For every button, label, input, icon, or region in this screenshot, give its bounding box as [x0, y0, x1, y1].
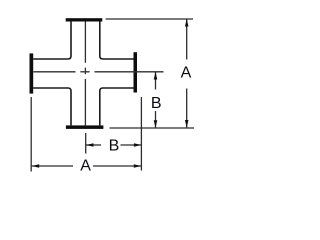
- cross fitting body outline top-right quadrant: [100, 22, 134, 60]
- cross fitting body outline bottom-left quadrant: [33, 88, 71, 125]
- cross fitting body outline bottom-right quadrant: [100, 88, 134, 125]
- right ferrule flange: [134, 52, 138, 92]
- arrow left B bottom: [86, 143, 94, 147]
- arrow left A bottom: [32, 164, 40, 168]
- extension line bottom left vertical: [30, 97, 32, 172]
- arrow up B right: [154, 72, 158, 80]
- dimension line A bottom: [32, 165, 73, 167]
- extension line below bottom flange (centerline continuation): [85, 133, 87, 154]
- cross fitting body outline top-left quadrant: [33, 22, 71, 60]
- svg-text:B: B: [109, 137, 120, 154]
- vertical centerline: [84, 22, 86, 126]
- extension line top right: [106, 18, 193, 20]
- dimension line B right: [155, 72, 157, 90]
- arrow right A bottom: [134, 164, 142, 168]
- bottom ferrule flange: [66, 125, 104, 128]
- dimension line A right: [186, 19, 188, 60]
- dimension line B bottom: [86, 144, 101, 146]
- arrow up A right: [185, 19, 189, 27]
- horizontal centerline: [34, 71, 164, 73]
- svg-text:A: A: [181, 65, 192, 82]
- top ferrule flange: [66, 18, 103, 21]
- arrow down B right: [154, 120, 158, 128]
- svg-text:A: A: [80, 158, 91, 175]
- extension line bottom right vertical: [140, 97, 142, 171]
- left ferrule flange: [30, 53, 34, 93]
- arrow down A right: [185, 120, 189, 128]
- extension line bottom right: [110, 127, 195, 129]
- arrow right B bottom: [134, 143, 142, 147]
- svg-text:B: B: [151, 95, 162, 112]
